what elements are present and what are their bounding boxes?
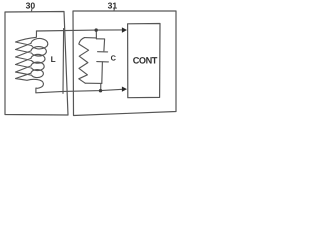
svg-text:C: C xyxy=(111,53,117,62)
svg-text:31: 31 xyxy=(108,0,118,10)
svg-text:30: 30 xyxy=(26,0,36,10)
svg-text:CONT: CONT xyxy=(133,56,158,66)
svg-text:L: L xyxy=(51,55,56,64)
